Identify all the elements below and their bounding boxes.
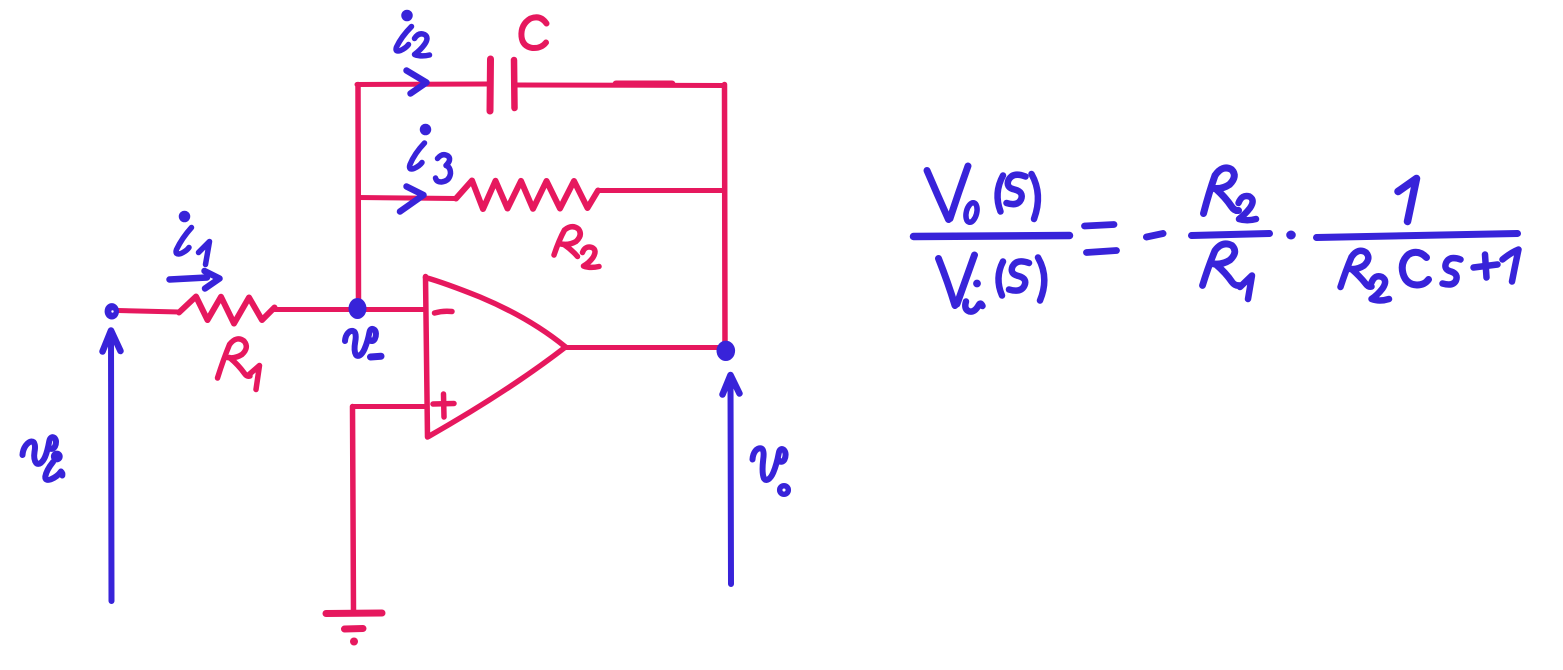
- current label i2: [396, 13, 430, 56]
- voltage label vi: [23, 437, 63, 480]
- ground: [326, 613, 382, 629]
- resistor R1: [179, 297, 275, 324]
- wire top capacitor branch left: [357, 82, 487, 88]
- voltage label vo: [753, 448, 789, 494]
- formula fraction bar middle: [1192, 234, 1270, 236]
- wire feedback resistor branch right: [598, 188, 725, 193]
- label C: [521, 17, 546, 48]
- formula R2 numerator: [1204, 168, 1257, 220]
- formula denominator R2Cs+1: [1341, 250, 1519, 301]
- op-amp minus pin mark: [435, 311, 453, 313]
- wire non-inverting input: [353, 404, 427, 409]
- ground dot: [350, 638, 358, 646]
- node inverting input v-: [349, 298, 367, 319]
- wire input left segment: [118, 311, 179, 313]
- formula R1 denominator: [1203, 244, 1253, 299]
- formula numerator 1: [1398, 179, 1417, 222]
- current label i1: [176, 214, 209, 265]
- formula fraction bar right: [1317, 234, 1518, 238]
- voltage label v-: [345, 329, 381, 357]
- formula numerator V0(s): [927, 166, 1038, 223]
- resistor R2: [456, 181, 598, 210]
- wire ground vertical: [353, 407, 354, 613]
- voltage arrow vi: [103, 331, 121, 602]
- voltage arrow vo: [723, 375, 740, 584]
- wire output: [566, 345, 722, 350]
- current arrow i2: [407, 71, 427, 94]
- capacitor C: [490, 59, 515, 111]
- label R1: [218, 339, 260, 390]
- op-amp U1: [426, 277, 566, 438]
- formula dot operator: [1286, 231, 1296, 240]
- op-amp plus pin mark: [433, 394, 454, 417]
- label R2: [554, 227, 599, 268]
- node input terminal: [105, 303, 119, 319]
- current arrow i3: [400, 187, 424, 212]
- formula minus sign: [1147, 234, 1164, 238]
- formula equals sign: [1085, 225, 1117, 253]
- node output: [717, 341, 736, 361]
- formula denominator Vi(s): [939, 255, 1045, 312]
- current label i3: [410, 127, 451, 183]
- wire input right segment to op-amp: [275, 307, 427, 312]
- current arrow i1: [170, 271, 220, 289]
- wire feedback resistor branch left: [358, 198, 456, 199]
- wire right vertical: [722, 85, 728, 349]
- wire left vertical from node to top: [355, 85, 361, 309]
- formula fraction bar left: [914, 236, 1070, 237]
- wire top capacitor branch right: [518, 84, 725, 86]
